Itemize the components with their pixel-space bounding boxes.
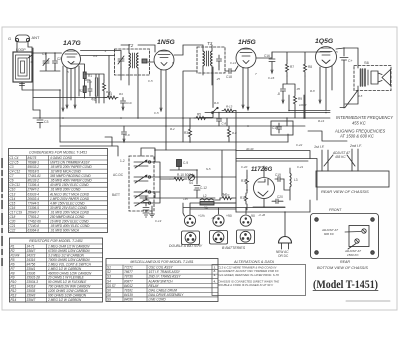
tube V2 1N5G	[154, 39, 175, 70]
tube V1 1A7G	[62, 40, 82, 69]
svg-text:460000 OHMS 1/2W CARBON: 460000 OHMS 1/2W CARBON	[48, 271, 92, 275]
svg-text:1-2: 1-2	[120, 159, 125, 163]
svg-text:C10: C10	[126, 101, 132, 105]
svg-text:LINE CORD: LINE CORD	[149, 298, 167, 302]
resistor R1	[83, 72, 92, 79]
svg-text:70000 OHMS 1/2W CARBON: 70000 OHMS 1/2W CARBON	[48, 258, 90, 262]
svg-text:R8: R8	[308, 65, 312, 69]
resistor R12	[240, 193, 248, 204]
svg-text:1st I.F.: 1st I.F.	[314, 145, 325, 149]
svg-text:77044-5: 77044-5	[28, 201, 40, 205]
svg-text:AT 1500 & 600 KC: AT 1500 & 600 KC	[339, 134, 374, 139]
wire plug bus	[183, 203, 285, 216]
svg-text:78677: 78677	[124, 270, 133, 274]
svg-text:20643-7: 20643-7	[27, 210, 40, 214]
svg-text:C16: C16	[264, 54, 270, 58]
svg-text:.05 MFD 200V PAPER COND: .05 MFD 200V PAPER COND	[50, 165, 92, 169]
wire long bus y126	[60, 125, 305, 127]
capacitor at loop bottom	[20, 84, 25, 86]
svg-text:33934-3: 33934-3	[27, 280, 39, 284]
resistor R5	[194, 113, 208, 120]
svg-text:-90: -90	[211, 216, 216, 220]
svg-text:C16: C16	[10, 206, 16, 210]
svg-text:R1: R1	[88, 74, 92, 78]
svg-text:C15: C15	[10, 201, 16, 205]
svg-text:33935: 33935	[27, 289, 36, 293]
svg-text:C18: C18	[226, 75, 232, 79]
svg-text:C4 C12: C4 C12	[10, 170, 21, 174]
svg-text:2nd I.F.: 2nd I.F.	[349, 144, 362, 148]
svg-text:C6: C6	[10, 179, 14, 183]
loop antenna L1	[13, 48, 32, 82]
power section outline	[236, 159, 317, 213]
svg-text:C2: C2	[57, 57, 61, 61]
svg-text:R1: R1	[11, 244, 15, 248]
wire table corner to gang bus	[105, 137, 112, 146]
svg-text:385 MMFD PADDING COND: 385 MMFD PADDING COND	[50, 174, 91, 178]
svg-text:R7: R7	[11, 267, 15, 271]
svg-text:.01 MFD 600V MICA: .01 MFD 600V MICA	[50, 229, 79, 233]
svg-text:71306-5: 71306-5	[28, 206, 40, 210]
svg-text:.01 MFD 200V MICA COND: .01 MFD 200V MICA COND	[50, 210, 90, 214]
rear view of chassis	[314, 144, 389, 194]
svg-text:C-12: C-12	[200, 186, 207, 190]
capacitor C18	[225, 69, 235, 80]
svg-text:R12: R12	[11, 289, 17, 293]
resistor R3 AVC	[184, 126, 192, 140]
svg-text:3-5: 3-5	[358, 94, 363, 98]
svg-text:90 OHMS 1/2 W FLEXIBLE: 90 OHMS 1/2 W FLEXIBLE	[48, 280, 87, 284]
svg-text:84756: 84756	[27, 262, 36, 266]
svg-text:1 MEG 1/2 W CARBON: 1 MEG 1/2 W CARBON	[48, 267, 82, 271]
miscellaneous table	[106, 259, 218, 302]
wire V2 plate to T3	[174, 45, 219, 85]
resistor R13	[222, 105, 236, 113]
svg-text:R7: R7	[290, 65, 294, 69]
svg-text:63964-8: 63964-8	[28, 229, 40, 233]
IF transformer T3	[197, 41, 225, 73]
svg-text:1ST I.F. TRANS ASSY: 1ST I.F. TRANS ASSY	[149, 270, 181, 274]
resistor R9	[294, 92, 303, 108]
svg-text:C-4: C-4	[87, 80, 92, 84]
svg-text:C-22: C-22	[296, 143, 303, 147]
resistor R12b	[228, 126, 238, 140]
capacitor C16	[264, 52, 275, 73]
wire loop bottom to ground bus	[22, 82, 60, 90]
svg-text:33941: 33941	[27, 267, 36, 271]
svg-text:AC-DC: AC-DC	[113, 173, 124, 177]
svg-text:C19: C19	[275, 173, 281, 177]
wire tube V1 leads down	[63, 66, 79, 108]
svg-text:40-40: 40-40	[246, 147, 254, 151]
svg-text:OR DC: OR DC	[278, 254, 289, 258]
wire mid right section	[256, 52, 330, 126]
wire rectifier section	[247, 166, 290, 210]
tuning gang dashed box	[112, 156, 154, 211]
svg-text:BOTTOM VIEW OF CHASSIS: BOTTOM VIEW OF CHASSIS	[317, 266, 368, 270]
svg-text:4 GANG COND: 4 GANG COND	[50, 156, 73, 160]
svg-text:L2: L2	[203, 194, 207, 198]
svg-text:1 MEG OHM 1/2 W CARBON: 1 MEG OHM 1/2 W CARBON	[48, 244, 90, 248]
resistor R8	[304, 60, 313, 76]
svg-text:80877: 80877	[124, 279, 133, 283]
svg-text:34318: 34318	[27, 285, 36, 289]
svg-text:S6: S6	[107, 288, 111, 292]
svg-text:C7: C7	[10, 174, 14, 178]
svg-text:.01 MFD 200V COND: .01 MFD 200V COND	[50, 188, 81, 192]
svg-text:.1: .1	[104, 49, 107, 53]
wire tube V2 leads down	[160, 70, 166, 150]
svg-text:77462-66: 77462-66	[28, 219, 42, 223]
svg-text:.05: .05	[296, 87, 300, 91]
svg-text:R12: R12	[240, 196, 246, 200]
svg-text:INTERMEDIATE FREQUENCY: INTERMEDIATE FREQUENCY	[336, 115, 393, 120]
svg-text:67300 OHMS 1/2W CARBON: 67300 OHMS 1/2W CARBON	[48, 249, 90, 253]
svg-text:80133-2: 80133-2	[28, 179, 40, 183]
svg-text:C3: C3	[10, 165, 14, 169]
wire staircase power box	[236, 134, 310, 159]
resistor R7	[286, 60, 295, 76]
variable capacitor section 3	[134, 190, 148, 198]
svg-text:3.: 3.	[214, 273, 217, 277]
svg-text:S4: S4	[107, 279, 111, 283]
svg-text:R8: R8	[11, 271, 15, 275]
svg-text:1N5G: 1N5G	[157, 39, 175, 46]
svg-text:R11: R11	[11, 285, 17, 289]
footer line	[346, 300, 390, 302]
svg-text:L3: L3	[294, 178, 298, 182]
wire bus y112	[205, 112, 330, 114]
svg-text:ALTERATIONS & DATA: ALTERATIONS & DATA	[233, 260, 274, 264]
resistor R10	[177, 160, 189, 167]
svg-text:MISCELLANEOUS FOR MODEL T-1451: MISCELLANEOUS FOR MODEL T-1451	[130, 260, 193, 264]
svg-text:R10: R10	[11, 280, 17, 284]
page edge marks	[1, 158, 3, 266]
svg-text:R3 R4: R3 R4	[11, 253, 20, 257]
svg-text:RELAY: RELAY	[149, 284, 160, 288]
IF transformer T2	[115, 43, 150, 75]
wire volume drop	[200, 67, 227, 126]
svg-text:100M: 100M	[299, 103, 307, 107]
svg-text:78181: 78181	[124, 288, 133, 292]
svg-text:C20: C20	[10, 219, 16, 223]
variable capacitor section 4	[134, 199, 148, 206]
svg-text:.05 MFD 400V PAPER COND: .05 MFD 400V PAPER COND	[50, 179, 92, 183]
svg-text:R4: R4	[119, 92, 123, 96]
wire loop to terminals	[17, 42, 32, 58]
battery socket S3	[237, 230, 255, 244]
svg-text:LOOP: LOOP	[16, 48, 26, 52]
svg-text:59033-2: 59033-2	[28, 165, 40, 169]
svg-text:R5: R5	[197, 113, 201, 117]
svg-text:REAR: REAR	[340, 260, 350, 264]
power plug AC	[276, 237, 292, 258]
svg-text:34-71: 34-71	[27, 244, 35, 248]
svg-text:40 MFD 150V ELEC COND: 40 MFD 150V ELEC COND	[50, 183, 89, 187]
svg-text:S6: S6	[364, 60, 370, 65]
svg-text:ALNICO 90CT MICA COND: ALNICO 90CT MICA COND	[49, 192, 90, 196]
svg-text:S2: S2	[107, 270, 111, 274]
svg-text:S3: S3	[107, 275, 111, 279]
svg-text:C14: C14	[10, 197, 16, 201]
svg-text:1200 OHMS 1/2W CARBON: 1200 OHMS 1/2W CARBON	[48, 289, 89, 293]
grid cap arrows	[62, 105, 76, 111]
svg-text:4 MF 150V ELEC COND: 4 MF 150V ELEC COND	[50, 201, 85, 205]
capacitor C3	[37, 110, 49, 128]
wire power box left riser	[221, 151, 223, 197]
svg-text:33936: 33936	[27, 271, 36, 275]
svg-text:3.3 MEG 1/2 W CARBON: 3.3 MEG 1/2 W CARBON	[48, 253, 85, 257]
alterations box	[212, 260, 306, 296]
svg-text:R2: R2	[11, 249, 15, 253]
svg-text:R9: R9	[11, 276, 15, 280]
svg-text:1500 KC: 1500 KC	[347, 253, 360, 257]
svg-text:S8: S8	[107, 293, 111, 297]
svg-text:C20: C20	[277, 195, 283, 199]
svg-text:1 MFD 200V PAPER COND: 1 MFD 200V PAPER COND	[50, 197, 90, 201]
tube V5 117Z6G	[251, 167, 275, 199]
svg-text:C22 ADDED, REMOVED IN LATER PR: C22 ADDED, REMOVED IN LATER PROD. S-76	[218, 273, 279, 277]
capacitor C5	[88, 84, 92, 96]
resistors table	[10, 238, 103, 302]
capacitor C20	[272, 195, 283, 204]
battery plug P1	[184, 214, 204, 226]
capacitor C19	[275, 173, 284, 182]
wire bus y150	[155, 149, 236, 151]
model number text	[313, 277, 378, 291]
svg-text:77140-8: 77140-8	[28, 224, 40, 228]
svg-text:455 KC: 455 KC	[352, 121, 366, 126]
svg-text:S9: S9	[107, 298, 111, 302]
svg-text:455 KC: 455 KC	[335, 155, 346, 159]
svg-text:27847-2: 27847-2	[27, 188, 40, 192]
svg-text:33043: 33043	[27, 294, 36, 298]
svg-text:C3: C3	[44, 120, 49, 124]
svg-text:C-20: C-20	[241, 165, 248, 169]
svg-text:DOUBLE A BATTERY: DOUBLE A BATTERY	[169, 244, 203, 248]
svg-text:20603-4: 20603-4	[27, 197, 40, 201]
capacitor C13	[271, 121, 293, 135]
svg-text:C2 C5: C2 C5	[10, 161, 19, 165]
capacitor C17	[277, 84, 286, 103]
svg-text:DIAL DRIVE ASSEMBLY: DIAL DRIVE ASSEMBLY	[149, 293, 185, 297]
svg-text:C18: C18	[10, 215, 16, 219]
wire y198 bus	[140, 193, 215, 198]
svg-text:S1: S1	[107, 266, 111, 270]
svg-text:C13: C13	[272, 126, 278, 130]
battery socket S2	[210, 231, 228, 245]
svg-text:OSC COIL ASSY: OSC COIL ASSY	[149, 266, 174, 270]
battery plug P2	[213, 214, 232, 226]
svg-text:33947: 33947	[27, 298, 36, 302]
svg-text:-90: -90	[250, 214, 255, 218]
capacitor C10	[121, 98, 132, 111]
svg-text:R3: R3	[184, 131, 188, 135]
svg-text:ANT: ANT	[32, 35, 41, 40]
svg-text:78736: 78736	[124, 275, 133, 279]
svg-text:2 MEG VOL CONT & SWITCH: 2 MEG VOL CONT & SWITCH	[47, 262, 92, 266]
wire long bus y118	[33, 117, 330, 119]
variable capacitor section 1	[134, 160, 148, 168]
electrolytic capacitors C11	[143, 196, 149, 212]
wire long bus y97	[33, 56, 109, 98]
svg-text:71306-4: 71306-4	[28, 183, 40, 187]
speaker	[378, 70, 391, 86]
svg-text:+45: +45	[183, 197, 188, 201]
svg-text:R2: R2	[79, 89, 83, 93]
filter choke L2	[200, 194, 214, 210]
svg-text:R9: R9	[298, 97, 302, 101]
svg-text:C1 C4: C1 C4	[10, 156, 19, 160]
bottom view of chassis	[311, 208, 379, 270]
svg-text:84036: 84036	[124, 298, 133, 302]
wire volume section	[160, 166, 197, 179]
ground tuning gang	[150, 211, 155, 217]
svg-text:REAR VIEW OF CHASSIS: REAR VIEW OF CHASSIS	[321, 189, 369, 194]
svg-text:+1½: +1½	[198, 214, 205, 218]
svg-text:C-8: C-8	[222, 122, 227, 126]
svg-text:ALARM SWITCH: ALARM SWITCH	[148, 279, 174, 283]
svg-text:C+: C+	[348, 59, 353, 63]
wire under T3	[183, 71, 212, 142]
output transformer S6	[354, 60, 391, 91]
wire grid input	[33, 53, 62, 71]
resistor R4	[105, 92, 118, 99]
svg-text:R-6: R-6	[214, 101, 219, 105]
svg-text:+90: +90	[226, 214, 232, 218]
svg-text:C13: C13	[10, 192, 16, 196]
variable capacitor section 2	[134, 175, 148, 183]
wire T2 to V2	[138, 45, 155, 62]
svg-text:1Q5G: 1Q5G	[315, 38, 334, 45]
capacitor C8	[217, 113, 227, 127]
svg-text:.25: .25	[216, 77, 221, 81]
svg-text:33847: 33847	[27, 249, 36, 253]
svg-text:30 MFD 25V ELEC COND: 30 MFD 25V ELEC COND	[50, 206, 88, 210]
svg-text:600 OHMS 1/2W CARBON: 600 OHMS 1/2W CARBON	[48, 294, 87, 298]
svg-text:R-14: R-14	[318, 119, 325, 123]
wire power box top riser	[229, 111, 236, 159]
svg-text:4 HY: 4 HY	[223, 193, 230, 197]
trimmer capacitor C1	[42, 52, 49, 67]
svg-text:C-13: C-13	[155, 219, 162, 223]
battery socket S1	[182, 231, 200, 245]
svg-text:84175: 84175	[28, 156, 37, 160]
wire gang connections	[60, 146, 160, 203]
svg-text:R-13: R-13	[226, 105, 233, 109]
capacitor C12	[194, 170, 207, 198]
svg-text:CONDENSERS FOR MODEL T-1451: CONDENSERS FOR MODEL T-1451	[29, 151, 87, 155]
wire bus y111 right	[289, 95, 330, 118]
svg-text:R6: R6	[11, 262, 15, 266]
text intermediate frequency note	[334, 115, 393, 139]
svg-text:C9 C11: C9 C11	[10, 183, 21, 187]
svg-text:DIAL CABLE DRUM: DIAL CABLE DRUM	[149, 288, 178, 292]
svg-text:34373: 34373	[27, 253, 36, 257]
text battery labels	[169, 244, 246, 250]
svg-text:R11: R11	[241, 179, 247, 183]
svg-text:G: G	[8, 36, 11, 41]
capacitor C2	[53, 56, 62, 67]
svg-text:250 MMFD MICA COND: 250 MMFD MICA COND	[49, 215, 85, 219]
svg-text:R-2: R-2	[170, 127, 175, 131]
svg-text:R-4: R-4	[106, 90, 111, 94]
svg-text:.05 MFD 400V ELEC COND: .05 MFD 400V ELEC COND	[50, 224, 90, 228]
svg-text:R13: R13	[11, 294, 17, 298]
wire B+ bus	[190, 209, 310, 212]
tube V4 1Q5G	[315, 38, 337, 68]
svg-text:77901-2: 77901-2	[28, 215, 40, 219]
ground symbol below C11	[143, 213, 149, 217]
svg-text:FRONT: FRONT	[329, 208, 342, 212]
condensers table	[9, 149, 108, 233]
svg-text:S-5: S-5	[206, 167, 211, 171]
resistor R10 zigzag	[170, 173, 193, 181]
oscillator coil T1	[92, 78, 99, 102]
svg-text:C-5: C-5	[154, 111, 159, 115]
svg-text:700 OHMS 2W WW CARBON: 700 OHMS 2W WW CARBON	[48, 285, 91, 289]
wire output section	[345, 86, 358, 104]
tube V3 1H5G	[236, 39, 256, 68]
svg-text:2ND I.F. TRANS ASSY: 2ND I.F. TRANS ASSY	[148, 275, 182, 279]
svg-text:C21: C21	[10, 224, 16, 228]
svg-text:C22: C22	[10, 229, 16, 233]
svg-text:33931-28: 33931-28	[27, 276, 41, 280]
svg-text:2 MEG 1/2 W CARBON: 2 MEG 1/2 W CARBON	[47, 298, 82, 302]
svg-text:20 OHMS 1 W FLEXIBLE: 20 OHMS 1 W FLEXIBLE	[47, 276, 85, 280]
potentiometer S4	[189, 175, 195, 186]
wire choke to plug bus	[214, 198, 236, 203]
svg-text:-3 +B: -3 +B	[258, 213, 265, 217]
svg-text:1A7G: 1A7G	[63, 40, 81, 47]
svg-text:76988-1: 76988-1	[28, 161, 40, 165]
svg-text:-8: -8	[277, 92, 280, 96]
svg-text:84012: 84012	[124, 284, 133, 288]
svg-text:S4: S4	[189, 181, 193, 185]
svg-text:76018-5: 76018-5	[28, 170, 40, 174]
switch S2 on volume	[212, 101, 219, 114]
svg-text:R14: R14	[11, 298, 17, 302]
svg-text:34316: 34316	[27, 258, 36, 262]
svg-text:BATT: BATT	[112, 193, 120, 197]
svg-text:77481-81: 77481-81	[28, 174, 42, 178]
svg-text:4.: 4.	[213, 279, 217, 283]
wire staircase to rear view	[308, 131, 347, 141]
wire vertical x60	[59, 90, 61, 142]
resistor R11	[241, 176, 249, 187]
wire tube V4 leads down	[319, 66, 332, 110]
svg-text:B BATTERIES: B BATTERIES	[222, 246, 246, 250]
svg-text:UNITS ON TRIMMER ASSY: UNITS ON TRIMMER ASSY	[50, 161, 91, 165]
wire plug to circuit	[285, 200, 310, 237]
svg-text:C-11: C-11	[230, 61, 236, 65]
battery plug P3	[240, 214, 255, 226]
resistor R9b	[220, 192, 233, 200]
svg-text:C-5: C-5	[148, 79, 153, 83]
svg-text:C10: C10	[10, 188, 16, 192]
wire speaker return diagonal	[340, 90, 358, 108]
svg-text:S5 S7: S5 S7	[107, 284, 116, 288]
svg-text:C-6: C-6	[125, 133, 130, 137]
wire right risers	[152, 177, 236, 211]
svg-text:C-16: C-16	[268, 76, 275, 80]
svg-text:84139: 84139	[124, 293, 133, 297]
svg-text:C-9: C-9	[183, 161, 188, 165]
svg-text:DOUBLE A CORD IS PLUGGED IN AT: DOUBLE A CORD IS PLUGGED IN AT 90 V	[218, 283, 274, 287]
wire tube V3 leads	[235, 66, 249, 110]
coil L3	[290, 173, 298, 187]
capacitor C14 electrolytic	[340, 48, 353, 108]
